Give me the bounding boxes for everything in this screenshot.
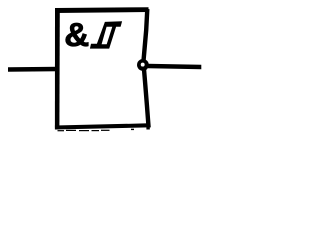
- inversion bubble at output: [137, 59, 149, 71]
- gate body U1 (monostable/AND box outline): [55, 7, 149, 129]
- right edge of gate body: [143, 9, 148, 128]
- svg-text:&: &: [64, 17, 89, 54]
- output wire: [148, 64, 201, 70]
- left edge of gate body: [55, 8, 60, 130]
- scan artifact dashes under bottom edge: [58, 127, 150, 131]
- pulse (monostable) symbol inside gate: [90, 21, 122, 48]
- input wire: [8, 67, 58, 72]
- bottom edge of gate body: [55, 123, 149, 129]
- top edge of gate body: [55, 7, 149, 13]
